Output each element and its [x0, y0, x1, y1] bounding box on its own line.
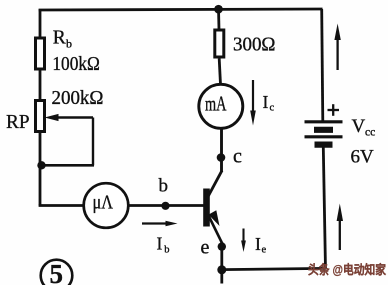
transistor Q base bar [203, 189, 210, 227]
wire base (uA to transistor base) [128, 204, 204, 207]
battery Vcc plate 4 short thick [315, 142, 333, 148]
wire top rail [39, 9, 323, 10]
wiper arrow of RP [45, 114, 94, 121]
svg-text:cc: cc [365, 127, 375, 139]
svg-text:200kΩ: 200kΩ [52, 88, 104, 109]
junction dot on left rail [37, 161, 45, 169]
svg-text:mA: mA [205, 92, 227, 116]
current direction arrow top right [334, 24, 340, 71]
figure number circled 5 [41, 259, 73, 285]
meter mA [199, 84, 243, 128]
node b dot [161, 202, 169, 210]
svg-text:b: b [164, 245, 169, 256]
svg-text:c: c [233, 146, 242, 168]
wire emitter vertical [220, 242, 223, 270]
wire 300 ohm to top rail [217, 8, 220, 30]
label Ib [157, 234, 170, 256]
current arrow Ie [241, 229, 246, 253]
wire left rail lower [39, 131, 42, 206]
battery Vcc plate 3 long [305, 135, 343, 138]
node c dot [217, 153, 226, 162]
label Vcc [352, 116, 376, 139]
transistor emitter lead diagonal [208, 214, 223, 244]
meter uA [84, 183, 129, 228]
wire mA to 300 ohm resistor [219, 59, 220, 85]
svg-text:头条 @电动知家: 头条 @电动知家 [308, 262, 386, 277]
svg-text:c: c [270, 103, 275, 114]
svg-text:b: b [66, 37, 72, 51]
svg-text:V: V [352, 116, 366, 137]
label Rb [53, 28, 72, 51]
potentiometer RP [36, 101, 45, 132]
wire to microammeter [39, 204, 84, 207]
junction dot top rail [214, 5, 223, 14]
resistor Rb [36, 38, 45, 69]
label Ie [255, 234, 267, 256]
svg-text:b: b [159, 176, 169, 197]
svg-text:μΛ: μΛ [93, 192, 114, 214]
transistor collector lead diagonal [208, 171, 223, 198]
svg-text:I: I [263, 92, 269, 112]
battery plus sign [328, 104, 340, 116]
wire bottom rail [222, 268, 326, 269]
wire left rail upper [39, 9, 42, 39]
current arrow Ic [250, 80, 256, 126]
junction dot bottom [217, 265, 226, 274]
svg-text:I: I [255, 234, 261, 254]
label Ic [263, 92, 275, 114]
battery Vcc plate 1 long [305, 120, 343, 123]
wire right rail lower [323, 148, 325, 270]
svg-text:300Ω: 300Ω [233, 35, 276, 56]
svg-text:100kΩ: 100kΩ [52, 54, 100, 75]
svg-text:RP: RP [6, 111, 30, 133]
svg-text:e: e [262, 245, 267, 256]
wire between Rb and RP [39, 69, 42, 101]
svg-text:6V: 6V [351, 147, 375, 168]
current arrow Ib [142, 221, 178, 226]
svg-text:R: R [53, 28, 66, 49]
wire collector vertical [220, 129, 223, 173]
current direction arrow bottom right [337, 204, 343, 251]
wire stub below bottom junction [220, 270, 223, 284]
wire right rail upper [322, 9, 323, 122]
wire wiper to junction [41, 164, 94, 167]
node e dot [218, 242, 226, 250]
wire wiper down segment [92, 118, 94, 166]
transistor emitter arrowhead [209, 210, 220, 226]
battery Vcc plate 2 short thick [314, 127, 333, 133]
svg-text:I: I [157, 234, 163, 254]
svg-text:e: e [201, 237, 210, 259]
svg-text:5: 5 [50, 259, 64, 285]
resistor 300Ω [215, 30, 224, 57]
